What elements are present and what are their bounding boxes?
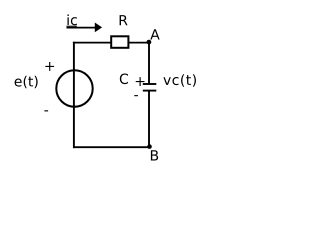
node B junction dot <box>147 144 152 149</box>
ic underline <box>66 25 77 27</box>
label plus of capacitor <box>136 77 145 86</box>
label B <box>151 150 158 160</box>
wire left vertical <box>73 42 75 148</box>
wire right vertical upper (A to capacitor) <box>148 43 150 84</box>
label minus of capacitor <box>134 95 138 96</box>
label R <box>120 15 128 25</box>
wire top horizontal (source to resistor to node A) <box>73 42 149 44</box>
capacitor C bottom plate <box>143 90 157 92</box>
current arrow ic shaft <box>67 27 96 29</box>
label minus of source <box>44 110 48 111</box>
wire right vertical lower (capacitor to B) <box>148 91 150 148</box>
wire bottom horizontal <box>73 146 150 148</box>
node A junction dot <box>147 40 152 45</box>
label e(t) <box>15 76 38 88</box>
resistor R body <box>111 36 128 48</box>
label A <box>150 29 159 39</box>
voltage source e(t) circle <box>56 70 92 106</box>
label plus of source <box>45 62 54 71</box>
capacitor C top plate <box>143 83 157 85</box>
label ic <box>68 14 77 25</box>
label C <box>120 74 128 85</box>
label vc(t) <box>163 74 196 86</box>
current arrow ic head <box>95 23 102 33</box>
